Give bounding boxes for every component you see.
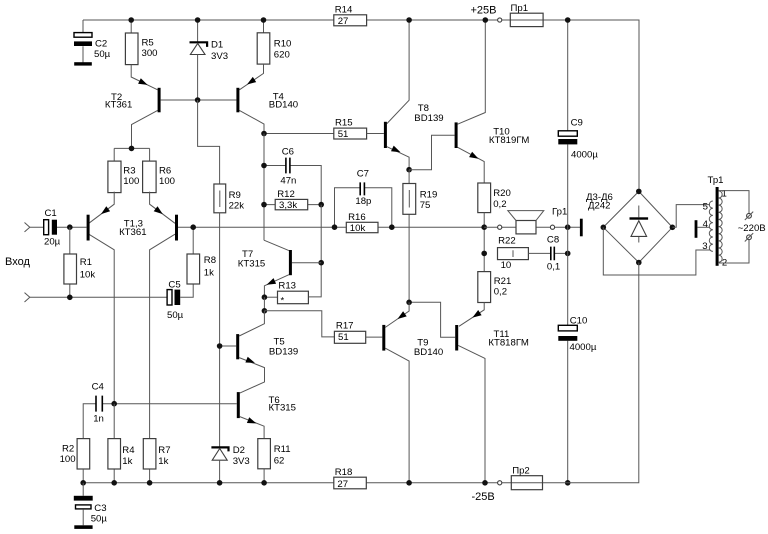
capacitor C10	[558, 227, 597, 483]
svg-text:22k: 22k	[229, 201, 245, 212]
resistor R19	[403, 170, 437, 303]
zener diode D2	[211, 445, 249, 483]
junction C7/R16 left	[332, 224, 338, 230]
transistor T4	[236, 64, 298, 133]
wire T7 emitter to T5 collector	[263, 297, 265, 311]
junction rail R4	[111, 480, 117, 486]
svg-text:R13: R13	[278, 281, 296, 292]
transistor T9	[366, 302, 444, 483]
transistor T7	[238, 240, 321, 297]
junction rail D2	[217, 480, 223, 486]
junction bridge left	[601, 225, 607, 231]
junction rail T11	[482, 480, 488, 486]
transistor T3 (T1,3 right)	[119, 192, 178, 439]
svg-text:0,2: 0,2	[493, 199, 506, 210]
plug pin lower ~220V	[745, 233, 753, 241]
svg-text:R9: R9	[229, 190, 241, 201]
junction T9 emitter node	[406, 300, 412, 306]
junction rail R7	[147, 480, 153, 486]
resistor R5	[125, 20, 157, 65]
svg-text:R14: R14	[335, 4, 353, 15]
svg-text:3,3k: 3,3k	[279, 200, 297, 211]
svg-text:R11: R11	[274, 444, 291, 455]
svg-text:*: *	[281, 296, 285, 307]
resistor R9	[214, 184, 244, 213]
svg-text:100: 100	[123, 176, 139, 187]
svg-text:50µ: 50µ	[167, 310, 184, 321]
junction T5 collector node	[262, 308, 268, 314]
terminal circle speaker left	[498, 225, 502, 229]
svg-text:R10: R10	[274, 39, 292, 50]
svg-text:КТ361: КТ361	[105, 99, 132, 110]
junction T3 base/R8	[190, 224, 196, 230]
ground (C3)	[74, 525, 92, 529]
resistor R4	[108, 404, 135, 483]
svg-text:4000µ: 4000µ	[571, 150, 598, 161]
resistor R8	[187, 227, 216, 284]
junction C8 right	[565, 251, 571, 257]
plug pin upper ~220V	[745, 212, 753, 220]
svg-text:R22: R22	[498, 236, 516, 247]
junction C10 bottom	[565, 480, 571, 486]
svg-text:R15: R15	[335, 118, 353, 129]
transistor T10	[455, 20, 530, 183]
svg-text:C7: C7	[357, 169, 369, 180]
svg-text:Д242: Д242	[588, 201, 611, 212]
svg-text:Пр2: Пр2	[512, 466, 530, 477]
capacitor C1	[30, 208, 87, 248]
svg-text:КТ361: КТ361	[119, 227, 146, 238]
svg-text:C2: C2	[95, 39, 107, 50]
junction bridge bottom	[636, 260, 642, 266]
junction R1 top	[67, 224, 73, 230]
resistor R7	[143, 439, 170, 483]
svg-text:5: 5	[703, 202, 708, 213]
capacitor C3	[74, 483, 108, 526]
svg-text:Вход: Вход	[5, 256, 30, 268]
wire T5 collector node to R17	[264, 311, 334, 337]
terminal circle +25V	[498, 18, 502, 22]
transistor T5	[220, 311, 299, 393]
svg-text:C9: C9	[571, 118, 583, 129]
wire R15 left to T4 collector column	[264, 133, 334, 135]
input arrow 1	[25, 223, 30, 232]
svg-text:3V3: 3V3	[211, 51, 228, 62]
svg-text:КТ818ГМ: КТ818ГМ	[488, 338, 528, 349]
junction T8 collector rail	[406, 17, 412, 23]
resistor R12	[264, 189, 321, 211]
junction R22 left	[481, 251, 487, 257]
junction R15 left	[261, 131, 267, 137]
terminal bar transformer tap 4	[695, 220, 710, 238]
svg-text:0,1: 0,1	[547, 262, 560, 273]
capacitor C8	[528, 235, 567, 273]
junction R12 right	[318, 202, 324, 208]
resistor R3	[108, 161, 139, 193]
transistor T6	[237, 392, 296, 439]
junction output node	[481, 224, 487, 230]
svg-text:R2: R2	[62, 444, 74, 455]
svg-text:3: 3	[702, 241, 707, 252]
svg-text:КТ819ГМ: КТ819ГМ	[489, 135, 529, 146]
junction T8 emitter node	[406, 167, 412, 173]
junction T5 base	[217, 343, 223, 349]
junction R3/R6 top	[129, 146, 135, 152]
svg-text:R8: R8	[204, 255, 216, 266]
svg-text:~220В: ~220В	[738, 223, 766, 234]
wire R9 to T5 base and D2	[219, 213, 221, 447]
svg-text:C3: C3	[94, 503, 106, 514]
junction C4/T1 collector	[111, 401, 117, 407]
svg-text:C8: C8	[547, 235, 559, 246]
svg-text:62: 62	[274, 456, 285, 467]
wire feedback line	[178, 226, 484, 228]
ground (C2)	[74, 62, 92, 65]
svg-text:20µ: 20µ	[44, 237, 61, 248]
svg-text:BD139: BD139	[269, 346, 298, 357]
wire transformer primary tap 1	[719, 191, 749, 214]
svg-text:Пр1: Пр1	[511, 3, 529, 14]
svg-text:47n: 47n	[280, 175, 296, 186]
zener diode D1	[190, 20, 229, 100]
svg-text:D1: D1	[211, 40, 223, 51]
junction C7/R16 right	[389, 224, 395, 230]
junction R1 bottom	[67, 295, 73, 301]
svg-text:27: 27	[337, 479, 348, 490]
junction bridge top	[636, 189, 642, 195]
svg-text:1k: 1k	[158, 456, 168, 467]
svg-text:0,2: 0,2	[494, 287, 507, 298]
junction C6 left	[261, 163, 267, 169]
resistor R13	[264, 281, 308, 307]
svg-text:3V3: 3V3	[233, 456, 250, 467]
svg-text:D2: D2	[233, 445, 245, 456]
svg-text:C5: C5	[168, 280, 180, 291]
capacitor C6	[264, 146, 321, 204]
junction R10 top	[261, 17, 267, 23]
wire output column	[483, 213, 485, 272]
svg-text:КТ315: КТ315	[238, 259, 265, 270]
svg-text:75: 75	[420, 200, 431, 211]
wire input line 2	[30, 296, 167, 298]
resistor R15	[334, 118, 367, 141]
svg-text:1n: 1n	[93, 414, 104, 425]
resistor R18	[334, 467, 367, 490]
svg-text:620: 620	[274, 50, 290, 61]
resistor R6	[143, 161, 175, 193]
wire T10 base tap	[409, 135, 455, 170]
wire T4 collector column	[263, 134, 265, 241]
svg-text:C10: C10	[570, 316, 588, 327]
capacitor C7	[335, 169, 392, 228]
svg-text:R7: R7	[158, 445, 170, 456]
svg-text:C1: C1	[45, 208, 57, 219]
resistor R16	[346, 212, 378, 234]
junction C9 top	[565, 17, 571, 23]
resistor R2	[60, 439, 90, 483]
fuse Пр1	[510, 3, 543, 27]
svg-text:R20: R20	[493, 188, 511, 199]
input arrow 2	[25, 293, 30, 302]
svg-text:1k: 1k	[122, 456, 132, 467]
junction T7 base	[318, 260, 324, 266]
junction bridge right	[670, 225, 676, 231]
svg-text:R1: R1	[80, 257, 92, 268]
resistor R17	[334, 321, 365, 344]
svg-text:4000µ: 4000µ	[570, 342, 597, 353]
wire bridge left to transformer tap 3	[603, 227, 710, 275]
wire R3/R6 header	[114, 148, 149, 161]
junction T10 collector rail	[483, 17, 489, 23]
transistor T2	[105, 65, 161, 149]
resistor R22	[498, 236, 529, 272]
svg-text:R3: R3	[123, 165, 135, 176]
svg-text:10k: 10k	[80, 270, 96, 281]
junction D1 top	[195, 17, 201, 23]
junction T2/T4 base	[195, 97, 201, 103]
wire D1 to R9	[198, 100, 220, 184]
transformer Тр1	[702, 175, 727, 269]
junction R12 left	[261, 202, 267, 208]
svg-text:R6: R6	[159, 165, 171, 176]
resistor R1	[64, 227, 95, 297]
svg-text:100: 100	[60, 454, 76, 465]
svg-text:-25В: -25В	[472, 491, 495, 503]
svg-text:10k: 10k	[350, 223, 366, 234]
wire T2/T4 base rail	[161, 99, 237, 101]
svg-text:50µ: 50µ	[94, 49, 111, 60]
transistor T1 (T1,3 left)	[87, 192, 115, 404]
resistor R10	[257, 20, 291, 64]
junction T7 emitter/R13	[262, 294, 268, 300]
svg-text:R17: R17	[336, 321, 354, 332]
svg-text:4: 4	[703, 219, 709, 230]
svg-text:300: 300	[142, 48, 158, 59]
svg-text:BD140: BD140	[414, 347, 443, 358]
capacitor C2	[74, 20, 111, 63]
junction rail R11	[261, 480, 267, 486]
terminal circle -25V	[498, 481, 502, 485]
transistor T8	[367, 20, 444, 170]
wire -25V bottom rail	[83, 263, 639, 483]
bridge rectifier Д3-Д6 Д242	[586, 191, 672, 262]
junction rail R2	[80, 480, 86, 486]
svg-text:100: 100	[159, 176, 175, 187]
svg-text:50µ: 50µ	[91, 514, 108, 525]
svg-text:BD140: BD140	[269, 100, 298, 111]
junction rail T9	[406, 480, 412, 486]
svg-text:+25В: +25В	[471, 5, 497, 17]
transistor T11	[409, 302, 529, 483]
svg-text:27: 27	[338, 16, 349, 27]
wire +25V top rail	[83, 20, 639, 191]
svg-text:R4: R4	[122, 445, 135, 456]
wire output to speaker	[484, 226, 580, 228]
wire Vbe-multiplier base column	[308, 205, 321, 297]
svg-text:R12: R12	[277, 189, 295, 200]
svg-text:BD139: BD139	[414, 113, 443, 124]
wire transformer primary tap 2	[719, 240, 749, 263]
svg-text:Гр1: Гр1	[552, 207, 567, 218]
terminal bar amplifier common	[580, 219, 583, 237]
svg-text:51: 51	[338, 129, 349, 140]
svg-text:51: 51	[338, 332, 349, 343]
svg-text:КТ315: КТ315	[269, 403, 296, 414]
capacitor C4	[83, 382, 237, 439]
svg-text:C4: C4	[92, 382, 105, 393]
svg-text:R16: R16	[348, 212, 366, 223]
svg-text:10: 10	[501, 260, 512, 271]
svg-text:R18: R18	[335, 467, 353, 478]
junction R5 top	[128, 17, 134, 23]
resistor R11	[258, 439, 291, 483]
resistor R21	[478, 272, 512, 303]
resistor R14	[334, 4, 367, 27]
svg-text:1k: 1k	[204, 268, 214, 279]
capacitor C5	[167, 280, 193, 322]
svg-text:R21: R21	[494, 276, 512, 287]
svg-text:18p: 18p	[355, 196, 371, 207]
capacitor C9	[558, 20, 598, 227]
svg-text:Тр1: Тр1	[708, 175, 724, 186]
junction speaker return	[565, 224, 571, 230]
terminal circle speaker right	[550, 225, 554, 229]
speaker Гр1	[508, 207, 568, 234]
svg-text:R5: R5	[142, 38, 154, 49]
wire bridge right to transformer tap 5	[672, 205, 710, 228]
svg-text:C6: C6	[282, 146, 294, 157]
fuse Пр2	[511, 466, 542, 490]
resistor R20	[478, 183, 511, 213]
